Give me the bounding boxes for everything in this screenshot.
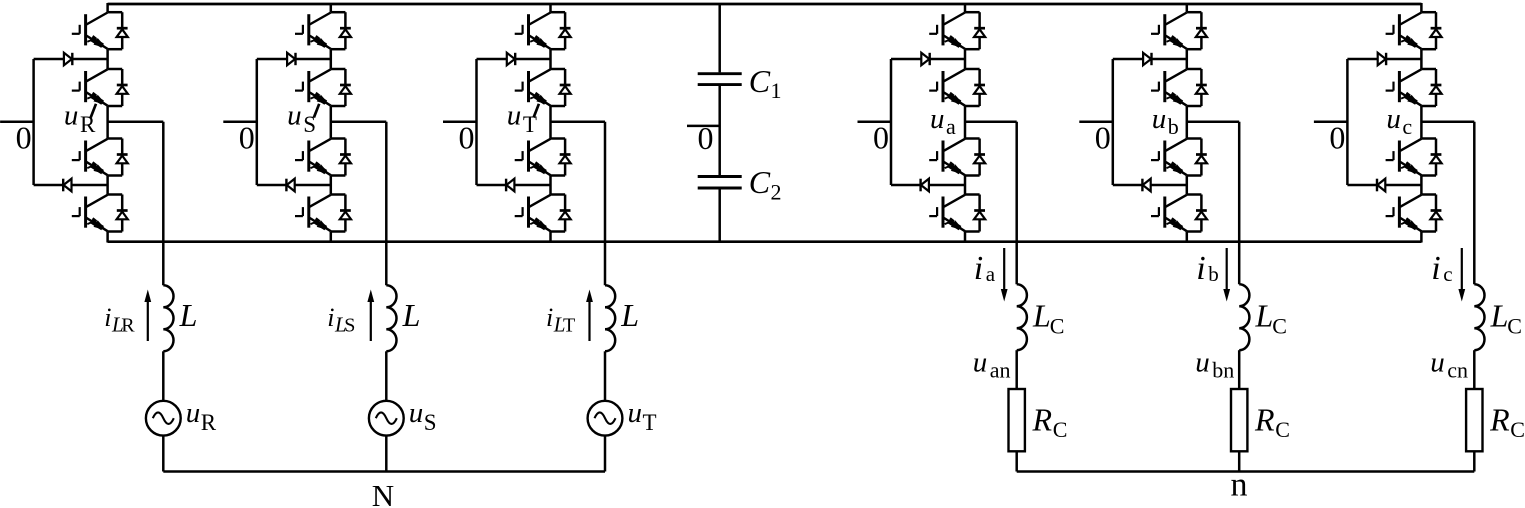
svg-text:1: 1 [771, 78, 782, 103]
svg-text:u: u [973, 347, 988, 379]
svg-text:0: 0 [16, 119, 32, 155]
svg-text:L: L [620, 297, 639, 333]
svg-text:N: N [372, 478, 394, 508]
svg-text:S: S [424, 410, 437, 435]
svg-text:0: 0 [1329, 119, 1345, 155]
svg-text:u: u [628, 397, 643, 429]
svg-text:L: L [179, 297, 198, 333]
svg-text:C: C [749, 164, 771, 200]
svg-text:L: L [1032, 298, 1051, 334]
svg-text:an: an [990, 358, 1011, 383]
svg-text:i: i [546, 303, 553, 332]
svg-text:C: C [1275, 417, 1290, 442]
svg-text:n: n [1231, 466, 1248, 503]
svg-text:C: C [1272, 314, 1287, 339]
svg-text:b: b [1168, 114, 1179, 139]
svg-text:R: R [121, 315, 135, 337]
svg-text:i: i [1431, 250, 1440, 287]
svg-text:a: a [946, 114, 956, 139]
svg-text:C: C [1053, 417, 1068, 442]
svg-text:R: R [1032, 402, 1053, 438]
svg-text:i: i [104, 303, 111, 332]
svg-text:T: T [563, 315, 575, 337]
svg-text:T: T [643, 410, 657, 435]
svg-text:C: C [1510, 417, 1525, 442]
svg-text:C: C [1507, 314, 1522, 339]
svg-text:R: R [201, 410, 217, 435]
svg-text:0: 0 [1095, 119, 1111, 155]
svg-text:u: u [1152, 103, 1167, 135]
svg-text:c: c [1443, 262, 1452, 286]
svg-text:C: C [749, 63, 771, 99]
svg-text:u: u [930, 103, 945, 135]
svg-text:2: 2 [771, 179, 782, 204]
svg-text:0: 0 [698, 120, 714, 156]
svg-text:u: u [507, 99, 522, 131]
svg-text:a: a [986, 262, 996, 286]
svg-text:cn: cn [1447, 358, 1468, 383]
svg-text:R: R [80, 112, 96, 137]
svg-text:R: R [1254, 402, 1275, 438]
svg-text:u: u [1195, 347, 1210, 379]
svg-text:u: u [1386, 103, 1401, 135]
svg-text:S: S [344, 315, 355, 337]
svg-text:0: 0 [873, 119, 889, 155]
svg-text:C: C [1050, 314, 1065, 339]
svg-text:i: i [1196, 250, 1205, 287]
svg-text:L: L [1490, 298, 1509, 334]
svg-text:b: b [1208, 262, 1219, 286]
svg-text:u: u [64, 99, 79, 131]
svg-text:u: u [186, 397, 201, 429]
svg-text:L: L [402, 297, 421, 333]
svg-text:i: i [327, 303, 334, 332]
svg-text:u: u [1430, 347, 1445, 379]
svg-text:u: u [409, 397, 424, 429]
svg-text:bn: bn [1212, 358, 1234, 383]
svg-text:R: R [1489, 402, 1510, 438]
svg-text:u: u [287, 99, 302, 131]
svg-text:L: L [1255, 298, 1274, 334]
svg-text:i: i [974, 250, 983, 287]
svg-text:0: 0 [239, 119, 255, 155]
svg-text:0: 0 [459, 119, 475, 155]
svg-text:c: c [1402, 114, 1412, 139]
